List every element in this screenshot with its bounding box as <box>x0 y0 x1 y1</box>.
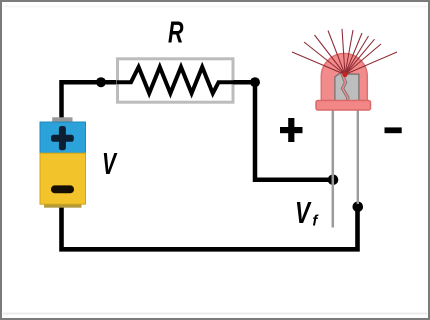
LED D1 cathode leg <box>357 108 359 204</box>
node junction dot at LED cathode leg <box>353 202 364 213</box>
resistor R1 box <box>118 59 234 102</box>
svg-text:R: R <box>168 15 184 50</box>
label + LED anode polarity <box>280 118 303 142</box>
resistor R1 zigzag <box>117 67 234 93</box>
node junction dot at LED anode leg <box>328 175 339 186</box>
battery V body <box>40 117 86 207</box>
LED D1 dome body <box>321 54 367 101</box>
wire battery negative bottom return <box>62 204 358 249</box>
node junction dot resistor output <box>250 77 260 87</box>
battery positive terminal mark <box>51 126 74 150</box>
LED D1 anode leg <box>332 108 335 228</box>
svg-text:V: V <box>102 146 118 181</box>
wire battery positive to resistor <box>62 82 117 119</box>
LED D1 internal anvil and post <box>335 73 359 104</box>
label - LED cathode polarity <box>385 127 402 133</box>
LED light rays <box>292 29 397 77</box>
LED D1 flange base <box>316 101 371 111</box>
node junction dot at battery-resistor wire <box>96 77 106 87</box>
battery negative terminal mark <box>51 185 74 193</box>
wire resistor to LED anode <box>234 82 332 180</box>
svg-text:V: V <box>295 195 312 230</box>
